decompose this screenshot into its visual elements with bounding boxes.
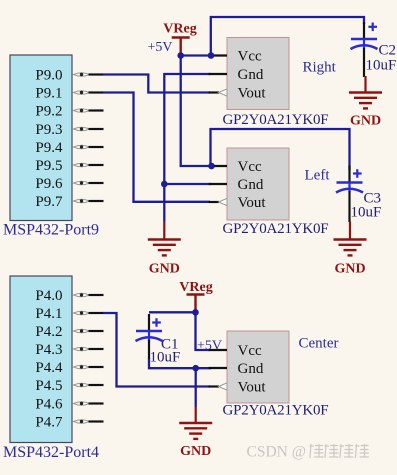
power port VReg xyxy=(163,22,196,56)
pin Gnd xyxy=(209,361,264,377)
wire +5V down to Left Vcc xyxy=(181,56,212,167)
value 10uF (C1) xyxy=(150,350,181,366)
sheet symbol MSP432-Port9 xyxy=(10,55,72,221)
part number label GP2Y0A21YK0F (Right) xyxy=(223,112,329,128)
svg-text:P9.0: P9.0 xyxy=(35,68,62,84)
svg-text:VReg: VReg xyxy=(179,280,212,295)
wire +5V node to Right Vcc xyxy=(181,54,211,56)
ground xyxy=(148,222,181,277)
part number label GP2Y0A21YK0F (Center) xyxy=(223,403,329,419)
junction node (164.3,184) xyxy=(161,181,168,188)
svg-text:Center: Center xyxy=(299,336,339,352)
svg-text:Gnd: Gnd xyxy=(238,361,264,377)
ground xyxy=(349,76,382,128)
sheet symbol MSP432-Port4 xyxy=(10,276,72,443)
sensor Center GP2Y0A21YK0F box xyxy=(227,331,289,403)
sheet entry name Center xyxy=(299,336,339,352)
svg-text:GND: GND xyxy=(334,262,365,277)
svg-text:P4.0: P4.0 xyxy=(35,288,62,304)
svg-text:+5V: +5V xyxy=(148,40,173,55)
svg-text:P4.2: P4.2 xyxy=(35,324,62,340)
label MSP432-Port4 xyxy=(3,444,99,461)
wire Left Gnd to bus xyxy=(164,183,211,185)
svg-text:MSP432-Port4: MSP432-Port4 xyxy=(3,444,99,461)
pin P9.4 xyxy=(35,140,103,156)
pin Vout xyxy=(209,380,267,396)
pin P4.7 xyxy=(35,415,103,431)
svg-text:P9.6: P9.6 xyxy=(35,176,63,192)
svg-text:P9.2: P9.2 xyxy=(35,104,62,120)
pin P4.5 xyxy=(35,378,103,394)
svg-text:P4.1: P4.1 xyxy=(35,306,62,322)
svg-text:VReg: VReg xyxy=(163,22,196,37)
power label +5V (bottom) xyxy=(197,339,222,354)
svg-text:GND: GND xyxy=(350,113,381,128)
wire Right Gnd bus down to GND xyxy=(164,74,211,222)
svg-text:C2: C2 xyxy=(379,43,397,59)
wire P4.1 to Center Vout xyxy=(103,313,210,387)
pin P4.3 xyxy=(35,342,103,358)
C3 pin to ground xyxy=(348,191,350,222)
svg-text:GP2Y0A21YK0F: GP2Y0A21YK0F xyxy=(223,221,329,237)
svg-text:GND: GND xyxy=(149,262,180,277)
svg-text:10uF: 10uF xyxy=(366,58,397,74)
svg-text:CSDN @: CSDN @ xyxy=(247,444,307,461)
pin Gnd xyxy=(209,67,264,83)
svg-text:Right: Right xyxy=(303,60,337,76)
sheet entry name Right xyxy=(303,60,337,76)
pin P4.1 xyxy=(35,306,103,322)
wire C1 bottom to Center Gnd and GND xyxy=(149,358,211,368)
designator C2 xyxy=(379,43,397,59)
svg-text:Left: Left xyxy=(305,168,331,184)
sensor Left GP2Y0A21YK0F box xyxy=(227,148,289,220)
wire bottom +5V down to Center Vcc xyxy=(196,312,211,350)
pin P9.3 xyxy=(35,122,103,138)
svg-text:P4.3: P4.3 xyxy=(35,342,62,358)
svg-text:P4.7: P4.7 xyxy=(35,415,63,431)
sensor Right GP2Y0A21YK0F box xyxy=(227,38,289,110)
svg-text:Vout: Vout xyxy=(238,195,267,211)
pin Gnd xyxy=(209,177,264,193)
wire P9.1 to Left Vout xyxy=(103,93,210,202)
pin P9.1 xyxy=(35,86,103,102)
pin P4.6 xyxy=(35,397,103,413)
svg-text:10uF: 10uF xyxy=(351,205,382,221)
svg-text:Vcc: Vcc xyxy=(238,343,262,359)
junction node (180.7,55.5) xyxy=(177,52,184,59)
junction node (195.5,312.3) xyxy=(192,309,199,316)
pin P4.0 xyxy=(35,288,103,304)
svg-text:10uF: 10uF xyxy=(150,350,181,366)
svg-text:P9.7: P9.7 xyxy=(35,194,63,210)
svg-text:Gnd: Gnd xyxy=(238,177,264,193)
part number label GP2Y0A21YK0F (Left) xyxy=(223,221,329,237)
svg-text:P9.5: P9.5 xyxy=(35,158,62,174)
pin Vout xyxy=(209,86,267,102)
C2 pin to ground xyxy=(363,48,365,77)
pin P9.0 xyxy=(35,68,103,84)
ground xyxy=(179,407,212,460)
value 10uF (C2) xyxy=(366,58,397,74)
pin Vout xyxy=(209,195,267,211)
designator C3 xyxy=(364,191,382,207)
pin P9.7 xyxy=(35,194,103,210)
value 10uF (C3) xyxy=(351,205,382,221)
svg-text:P4.6: P4.6 xyxy=(35,397,63,413)
pin Vcc xyxy=(209,49,262,65)
pin Vcc xyxy=(209,159,262,175)
capacitor C3 xyxy=(336,166,363,193)
pin P9.6 xyxy=(35,176,103,192)
svg-text:GND: GND xyxy=(180,444,211,459)
wire Left Vcc to C3 xyxy=(211,129,350,170)
junction node (195.7,368.2) xyxy=(192,365,199,372)
svg-text:+5V: +5V xyxy=(197,339,222,354)
svg-text:Gnd: Gnd xyxy=(238,67,264,83)
svg-text:Vcc: Vcc xyxy=(238,159,262,175)
watermark CSDN xyxy=(247,444,369,461)
power label +5V (top) xyxy=(148,40,173,55)
wire net VReg/+5V top: top rail to C2 xyxy=(211,17,364,56)
capacitor C2 xyxy=(351,22,378,49)
pin Vcc xyxy=(209,343,262,359)
wire GND stem (bottom) xyxy=(195,368,197,407)
pin P9.2 xyxy=(35,104,103,120)
ground xyxy=(334,222,367,277)
power port VReg xyxy=(179,280,212,312)
junction node (211,55.5) xyxy=(208,52,215,59)
svg-text:GP2Y0A21YK0F: GP2Y0A21YK0F xyxy=(223,403,329,419)
designator C1 xyxy=(161,337,179,353)
pin P9.5 xyxy=(35,158,103,174)
label MSP432-Port9 xyxy=(3,222,99,239)
pin P4.4 xyxy=(35,360,103,376)
capacitor C1 xyxy=(136,314,163,341)
svg-text:Vout: Vout xyxy=(238,86,267,102)
svg-text:P4.5: P4.5 xyxy=(35,378,62,394)
pin P4.2 xyxy=(35,324,103,340)
svg-text:Vcc: Vcc xyxy=(238,49,262,65)
svg-text:P9.1: P9.1 xyxy=(35,86,62,102)
junction node (211.5,166) xyxy=(208,163,215,170)
svg-text:MSP432-Port9: MSP432-Port9 xyxy=(3,222,99,239)
svg-text:P4.4: P4.4 xyxy=(35,360,63,376)
svg-text:P9.3: P9.3 xyxy=(35,122,62,138)
sheet entry name Left xyxy=(305,168,331,184)
svg-text:GP2Y0A21YK0F: GP2Y0A21YK0F xyxy=(223,112,329,128)
svg-text:P9.4: P9.4 xyxy=(35,140,63,156)
svg-text:Vout: Vout xyxy=(238,380,267,396)
wire P9.0 to Right Vout xyxy=(103,75,210,93)
wire bottom VReg node to C1 xyxy=(149,311,196,313)
C1 bottom pin xyxy=(148,340,150,359)
